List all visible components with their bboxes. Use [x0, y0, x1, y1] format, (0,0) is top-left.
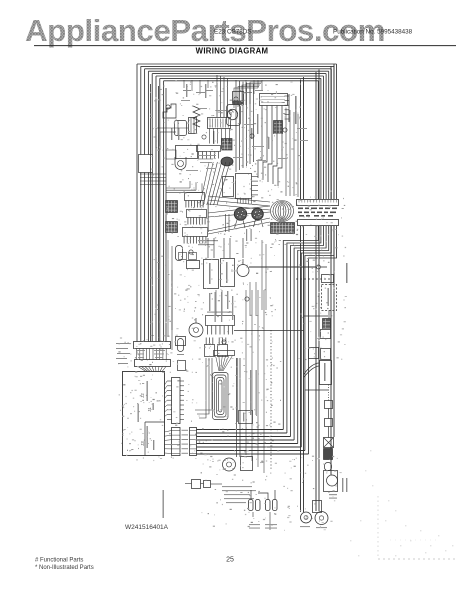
svg-text:* Non-Illustrated Parts: * Non-Illustrated Parts — [35, 565, 94, 571]
svg-text:J3: J3 — [140, 441, 145, 446]
svg-text:25: 25 — [226, 557, 234, 564]
svg-text:# Functional Parts: # Functional Parts — [35, 558, 83, 564]
svg-text:AppliancePartsPros.com: AppliancePartsPros.com — [25, 13, 385, 48]
svg-text:E23 CS78DS: E23 CS78DS — [214, 29, 251, 36]
svg-text:WIRING DIAGRAM: WIRING DIAGRAM — [196, 47, 269, 56]
svg-text:Publication No. 5995438438: Publication No. 5995438438 — [333, 29, 413, 36]
svg-text:W241516401A: W241516401A — [125, 524, 169, 531]
